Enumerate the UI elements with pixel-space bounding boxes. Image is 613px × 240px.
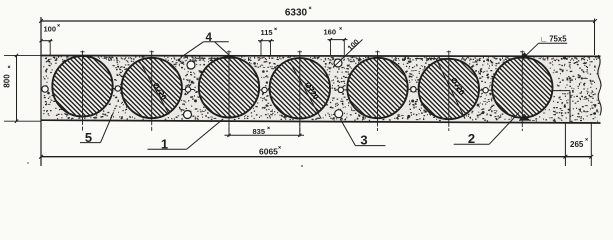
svg-text:265: 265	[570, 140, 584, 149]
svg-text:6065: 6065	[259, 146, 278, 156]
svg-text:800: 800	[3, 74, 12, 88]
svg-text:6330: 6330	[285, 8, 308, 19]
svg-text:∟ 75x5: ∟ 75x5	[540, 35, 567, 44]
svg-text:835: 835	[253, 127, 266, 136]
svg-text:160: 160	[324, 27, 337, 36]
svg-text:115: 115	[261, 28, 273, 37]
svg-text:100: 100	[44, 25, 57, 34]
